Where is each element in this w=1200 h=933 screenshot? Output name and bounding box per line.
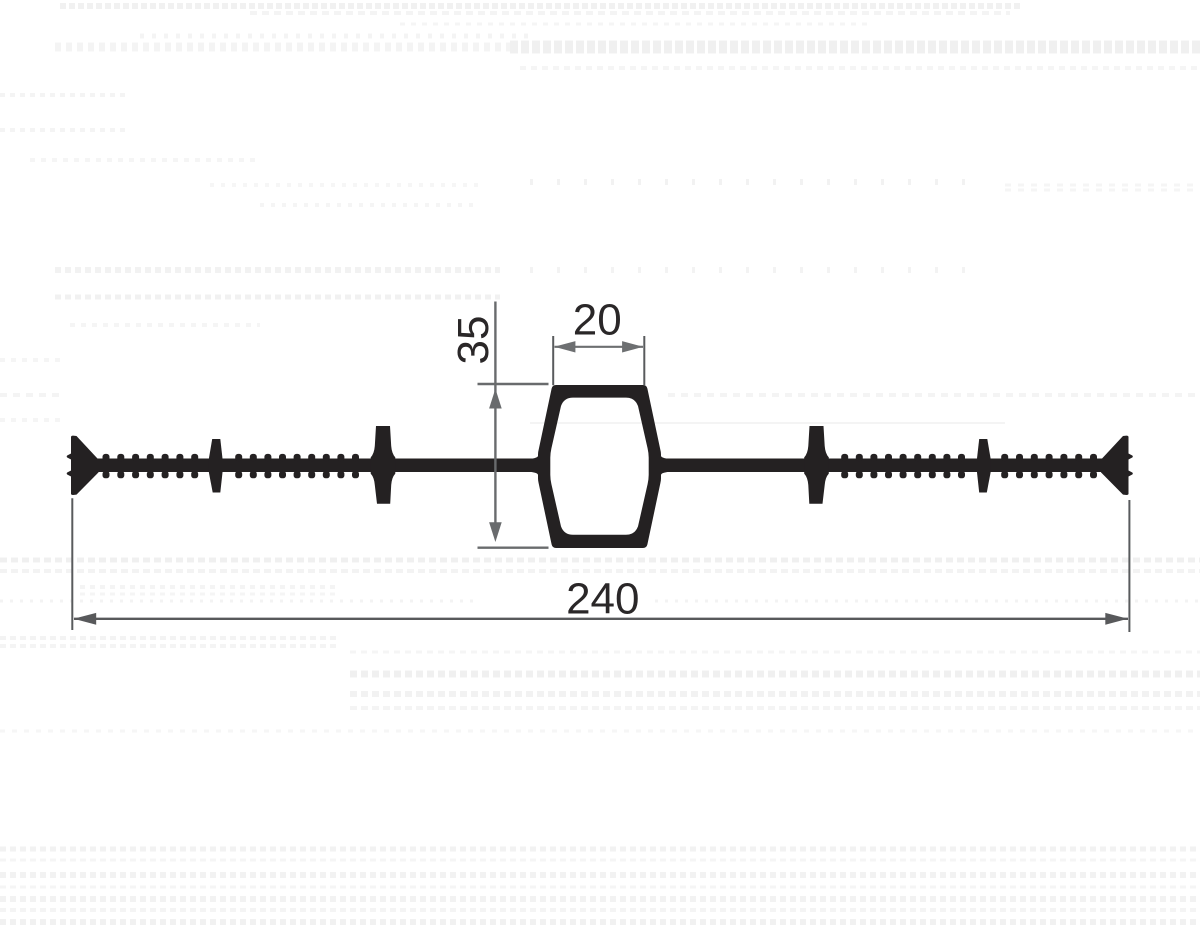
right cone nub upper [1128, 453, 1133, 459]
dimension 240: right arrow [1105, 613, 1128, 625]
dimension 20: extension lines [553, 336, 644, 385]
right end cone [1101, 436, 1129, 495]
dimension 20: dimension line [555, 346, 644, 348]
central tube (hexagonal barrel with hollow) [532, 385, 668, 548]
dimension 20: right arrow [622, 341, 643, 352]
svg-text:35: 35 [449, 316, 498, 365]
dimension 35: dimension line [494, 302, 496, 525]
ribs right section 1 (mirror) [1001, 454, 1097, 478]
svg-text:240: 240 [566, 575, 639, 624]
web right flange [652, 459, 1109, 473]
dimension 20: left arrow [554, 341, 575, 352]
big anchor right (mirror) [804, 426, 829, 504]
waterstop profile (black) [67, 385, 1133, 548]
ribs left section 2 [235, 454, 359, 478]
ribs left section 1 (top+bottom teeth) [103, 454, 199, 478]
left end cone [71, 436, 99, 495]
dimension 35: down arrow [489, 522, 502, 542]
big anchor left [371, 426, 396, 504]
small anchor left [209, 439, 223, 493]
svg-text:20: 20 [573, 296, 622, 345]
left cone nub upper [67, 453, 72, 459]
dimension 35: extension lines [478, 384, 549, 548]
ribs right section 2 (mirror) [841, 454, 965, 478]
dimension 240: extension lines [72, 498, 1129, 632]
web left flange [90, 459, 548, 473]
left cone nub lower [67, 470, 72, 476]
small anchor right (mirror) [977, 439, 991, 493]
dimension 240: dimension line [74, 618, 1128, 620]
dimension 35: up arrow [489, 389, 502, 409]
right cone nub lower [1128, 470, 1133, 476]
dimension 240: left arrow [74, 613, 97, 625]
